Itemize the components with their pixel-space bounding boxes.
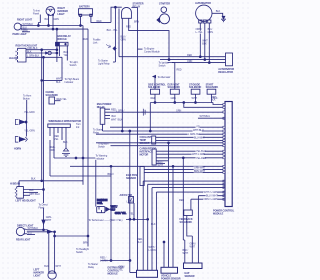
solenoid row: st-diode solenoid [191, 89, 200, 94]
wire: main bus B y=29.1 [22, 28, 88, 30]
wire: solenoid bus [150, 102, 213, 104]
ground: alternator ground [212, 13, 223, 16]
svg-text:L GRN: L GRN [127, 201, 134, 204]
relay: main relay module box [56, 42, 69, 46]
svg-text:Relay: Relay [88, 266, 95, 269]
egr position sensor box [140, 167, 144, 186]
svg-text:BLK: BLK [28, 232, 33, 235]
svg-text:WHT: WHT [55, 265, 61, 268]
label: pcm bus labels [196, 125, 200, 128]
svg-text:BLK: BLK [112, 115, 117, 118]
alternator [196, 5, 212, 21]
wire: nested L wires to bottom boxes [143, 180, 225, 182]
wire: main bus A y=25.5 [22, 25, 83, 27]
svg-text:GRN: GRN [54, 18, 60, 21]
svg-text:SOLENOID: SOLENOID [148, 86, 161, 89]
wire: x111 down / distributor feed [101, 131, 137, 273]
svg-text:GRN: GRN [121, 38, 127, 41]
svg-text:RED: RED [187, 54, 192, 57]
svg-text:Relay: Relay [93, 132, 100, 135]
svg-text:RELAY: RELAY [133, 5, 141, 8]
wire: long vertical x41.7 [41, 50, 43, 181]
svg-text:SENSOR: SENSOR [140, 142, 150, 145]
wire: solenoid to pcm [184, 103, 225, 108]
wire: bus to starter relay y131 [103, 130, 226, 132]
svg-text:RED-YEL: RED-YEL [57, 98, 68, 101]
relay: starter relay dome [122, 7, 132, 18]
wire: left headlight feeds [19, 181, 83, 187]
svg-text:Panel: Panel [33, 13, 39, 16]
wire: headlight feed wires [26, 49, 57, 51]
svg-text:BLK: BLK [211, 99, 216, 102]
svg-text:BRN /: BRN / [108, 173, 115, 176]
svg-text:To Alternator: To Alternator [158, 76, 171, 79]
wire: warning indicator line [82, 157, 84, 159]
svg-text:GRN: GRN [208, 31, 214, 34]
solenoid row: side control solenoid [150, 89, 159, 94]
svg-text:COIL: COIL [97, 202, 103, 205]
svg-text:LIGHT: LIGHT [58, 13, 66, 16]
svg-text:Indicator: Indicator [65, 81, 74, 84]
svg-text:RED: RED [126, 25, 131, 28]
distribution module connector (bottom wide box) [137, 270, 158, 277]
svg-text:Switch: Switch [159, 65, 167, 68]
svg-text:Switch: Switch [70, 64, 78, 67]
svg-text:L-GRN: L-GRN [100, 259, 108, 262]
svg-text:To Tachometer ―― (RED / YEL): To Tachometer ―― (RED / YEL) [89, 219, 123, 222]
junction: small circle symbol [48, 51, 51, 54]
lamp: right marker light [46, 7, 55, 16]
wire: starter relay red lead [121, 18, 123, 131]
wire: to direct flash chain [43, 190, 45, 204]
svg-text:BLK: BLK [31, 178, 36, 181]
wire: bus y140.4 coolant [156, 139, 225, 141]
wire: bottom bus to headlight switch [55, 235, 88, 237]
svg-text:BLK: BLK [44, 265, 49, 268]
wire: bus y127.2 [110, 126, 225, 128]
svg-text:WHT: WHT [46, 219, 52, 222]
svg-text:MOTOR: MOTOR [140, 154, 149, 157]
background dotted grid [0, 0, 249, 280]
svg-text:PARK LIGHT: PARK LIGHT [13, 33, 28, 36]
svg-text:RED: RED [177, 69, 182, 72]
connector: left headlight [17, 187, 24, 199]
carburetor interface motor box [152, 149, 156, 165]
svg-text:BLK: BLK [151, 223, 156, 226]
svg-text:WHT-L GRN: WHT-L GRN [192, 153, 205, 156]
svg-text:HI BEAM: HI BEAM [10, 183, 20, 186]
vehicle power sensor box [161, 267, 178, 273]
wire: regulator feed lines [119, 9, 226, 57]
fusible link vertical [114, 7, 116, 62]
svg-text:HORN: HORN [14, 148, 21, 151]
capacitor: condenser [143, 109, 147, 116]
node: dot at x40 bus A [38, 15, 40, 26]
battery [79, 9, 93, 15]
svg-text:WHT-BLU: WHT-BLU [29, 193, 40, 196]
pcm connector (tall) [225, 102, 232, 207]
svg-text:GRN: GRN [171, 97, 177, 100]
lamp: right park light [14, 23, 21, 30]
svg-text:WHT: WHT [190, 246, 196, 249]
svg-text:WHT: WHT [192, 97, 198, 100]
wire: verticals into bottom box [126, 219, 148, 221]
svg-text:SENSOR: SENSOR [126, 177, 136, 180]
wire: horn relay bottom [102, 124, 104, 131]
svg-text:RED: RED [83, 38, 88, 41]
feedback solenoid box [184, 210, 193, 216]
starter motor [160, 14, 170, 24]
solenoid row: egr vent solenoid [170, 89, 179, 94]
wire: relay module left leg [56, 46, 58, 50]
wire: vertical x56.9 down from bus B [56, 29, 58, 62]
wire: x50 BLK down to marker [48, 232, 50, 271]
svg-text:GRN / YEL: GRN / YEL [115, 212, 127, 215]
horn switch symbol [16, 119, 20, 124]
svg-text:BLK: BLK [216, 10, 221, 13]
svg-text:BLK: BLK [63, 141, 68, 144]
svg-text:YEL-GRN: YEL-GRN [24, 130, 35, 133]
svg-text:MODULE: MODULE [57, 38, 68, 41]
wire: bus y137.3 coolant [156, 136, 225, 138]
svg-text:L GRN: L GRN [149, 249, 156, 252]
wire: park light third stub [22, 31, 30, 33]
alternator regulator box [226, 53, 233, 66]
bottom right sensor box [184, 263, 203, 269]
svg-text:SOLENOID: SOLENOID [46, 94, 59, 97]
svg-text:BLK: BLK [45, 18, 50, 21]
svg-text:WHT / BLK: WHT / BLK [111, 119, 123, 122]
wire: carb motor leads [156, 150, 225, 152]
svg-text:YEL: YEL [64, 54, 69, 57]
lamp: left park light [16, 227, 24, 235]
svg-text:GRN: GRN [176, 110, 182, 113]
wire: starter relay brn lead [131, 8, 137, 271]
svg-text:Indicator: Indicator [96, 157, 105, 160]
wire: alternator leads down [199, 23, 201, 57]
svg-text:YEL-RED: YEL-RED [196, 157, 206, 160]
svg-text:BATTERY: BATTERY [79, 6, 90, 9]
solenoid row: start solenoid [207, 89, 216, 94]
wire: to inst lamp stub [38, 25, 40, 27]
coolant temp sensor box [152, 136, 156, 144]
wire: long vertical bus x83 [82, 26, 84, 185]
wire: bus y134.2 [96, 133, 225, 135]
svg-text:LIGHT: LIGHT [34, 275, 42, 278]
choke solenoid box [49, 97, 55, 104]
svg-text:BLK: BLK [202, 43, 207, 46]
svg-text:SOLENOID: SOLENOID [206, 86, 219, 89]
wire: relay module legs down [58, 46, 60, 56]
svg-text:WHT-BLK: WHT-BLK [23, 23, 34, 26]
svg-text:BLU-WHT: BLU-WHT [194, 136, 205, 139]
lamp: left marker light [48, 271, 56, 279]
svg-text:RIGHT LIGHT: RIGHT LIGHT [17, 19, 32, 22]
svg-text:BRN-WHT: BRN-WHT [194, 170, 206, 173]
windshield wiper motor connector [48, 124, 71, 127]
wire: pcm lower inputs [198, 196, 225, 263]
horn lead [25, 100, 28, 122]
svg-text:Flash: Flash [39, 207, 45, 210]
svg-text:BLK: BLK [56, 81, 61, 84]
connector arrow symbol 2 [47, 230, 52, 233]
svg-text:BLK - YEL: BLK - YEL [107, 29, 119, 32]
svg-text:BLU: BLU [137, 241, 142, 244]
wire: wiper line y166.3 [70, 165, 225, 167]
svg-text:WHT: WHT [183, 252, 189, 255]
svg-text:ORN: ORN [187, 60, 193, 63]
svg-text:SOLENOID: SOLENOID [189, 86, 202, 89]
svg-text:SENSOR: SENSOR [185, 275, 195, 278]
svg-text:L GRN /: L GRN / [116, 110, 125, 113]
svg-text:BLK: BLK [27, 50, 32, 53]
svg-text:RELAY: RELAY [97, 106, 105, 109]
svg-text:WHT-BLU: WHT-BLU [200, 115, 211, 118]
svg-text:Switch: Switch [76, 251, 84, 254]
svg-text:BRN: BRN [134, 20, 139, 23]
wire: high-beam indicator line [42, 79, 62, 81]
svg-text:ORN / L-GRN: ORN / L-GRN [204, 198, 219, 201]
svg-text:SOLENOID: SOLENOID [180, 221, 193, 224]
svg-text:MODULE: MODULE [108, 273, 119, 276]
svg-text:Light Relay: Light Relay [98, 63, 110, 66]
svg-text:Control Module: Control Module [144, 51, 160, 54]
ground: wiper ground [62, 148, 70, 157]
svg-text:LEFT HEADLIGHT: LEFT HEADLIGHT [16, 199, 37, 202]
wire: battery negative stub [80, 16, 82, 25]
svg-text:Button: Button [23, 98, 30, 101]
svg-text:Switch: Switch [98, 146, 106, 149]
svg-text:L- YEL: L- YEL [196, 31, 204, 34]
label: pcm lower bus labels [203, 191, 218, 194]
svg-text:BLU / WHT: BLU / WHT [206, 195, 218, 198]
svg-text:YEL: YEL [119, 269, 124, 272]
wire: wiper signal to right [54, 157, 95, 159]
svg-text:WHT-BLU: WHT-BLU [193, 129, 204, 132]
svg-text:BLK: BLK [29, 189, 34, 192]
wire: long vertical bus x88 [87, 29, 89, 236]
svg-text:YEL: YEL [129, 213, 134, 216]
svg-text:L GRN-BLK: L GRN-BLK [27, 55, 40, 58]
svg-text:RED: RED [151, 97, 156, 100]
svg-text:SOLENOID: SOLENOID [168, 86, 181, 89]
wire: x56 down [54, 232, 56, 271]
svg-text:YEL: YEL [54, 138, 59, 141]
wire: bus y142.8 [96, 142, 225, 144]
svg-text:YEL-GRN: YEL-GRN [24, 111, 35, 114]
connector arrow symbol 1 [42, 220, 45, 224]
svg-text:WHT-BLK: WHT-BLK [28, 227, 39, 230]
svg-text:ALTERNATOR: ALTERNATOR [195, 2, 211, 5]
svg-text:HI-LOW: HI-LOW [9, 57, 18, 60]
svg-text:MODULE: MODULE [213, 213, 224, 216]
label: wht-blu pcm top [206, 116, 215, 119]
air filter sensor [129, 197, 134, 204]
svg-text:RED: RED [97, 20, 102, 23]
wire: stub to engine control module [138, 48, 143, 50]
wire: relay to ignition switch loop [129, 18, 169, 59]
horn relay [100, 108, 105, 124]
svg-text:AIR FILTER: AIR FILTER [120, 194, 133, 197]
wire: to starter light relay stub [113, 61, 115, 63]
horn symbol [15, 137, 19, 143]
wire: wiper line y176 [50, 175, 111, 177]
svg-text:BRN: BRN [23, 29, 28, 32]
svg-text:RED: RED [179, 199, 184, 202]
wire: battery positive to starter relay net [91, 7, 122, 22]
svg-text:BRN: BRN [83, 242, 88, 245]
svg-text:REAR LIGHT: REAR LIGHT [16, 239, 31, 242]
wire: to ignition switch y145.7 [111, 145, 226, 147]
svg-text:STARTER: STARTER [159, 2, 170, 5]
svg-text:ORN: ORN [50, 149, 56, 152]
wire: park light leads [27, 229, 44, 231]
wire: long vertical x43.5 [43, 57, 45, 189]
svg-text:WHT: WHT [158, 164, 164, 167]
svg-text:WHT: WHT [56, 78, 62, 81]
svg-text:REGULATOR: REGULATOR [218, 71, 233, 74]
connector: right headlight [18, 48, 27, 62]
